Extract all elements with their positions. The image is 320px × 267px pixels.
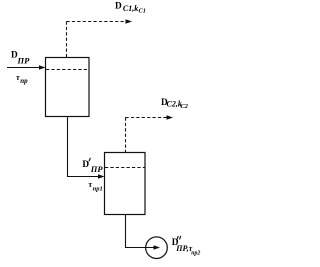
wire dashed overhead C1 vertical [66, 22, 68, 58]
svg-text:пр1: пр1 [93, 186, 103, 193]
wire dashed overhead C2 vertical [125, 118, 127, 153]
pump circle [146, 237, 168, 259]
feed tray dashed line C2 [105, 167, 145, 169]
column C2 [105, 153, 146, 215]
svg-text:ПР,τ: ПР,τ [175, 244, 192, 253]
svg-text:ПР: ПР [17, 55, 31, 65]
wire bottoms C2 down [125, 215, 127, 248]
svg-text:пр: пр [20, 77, 28, 85]
svg-text:пр2: пр2 [191, 251, 200, 257]
wire bottoms C1 to C2 [67, 176, 99, 178]
svg-text:D: D [115, 1, 122, 11]
svg-text:ПР: ПР [90, 164, 104, 174]
feed tray dashed line C1 [46, 69, 89, 71]
wire bottoms C2 to pump [125, 247, 154, 249]
wire dashed overhead C2 horizontal [126, 117, 168, 119]
wire dashed overhead C1 horizontal [67, 21, 127, 23]
column C1 [46, 58, 90, 117]
wire feed arrow into C1 [7, 67, 41, 69]
svg-text:C1: C1 [139, 8, 146, 15]
svg-text:C2: C2 [181, 103, 188, 110]
svg-text:D: D [82, 160, 89, 170]
wire bottoms C1 down [67, 117, 69, 177]
svg-text:C1,k: C1,k [123, 4, 138, 13]
